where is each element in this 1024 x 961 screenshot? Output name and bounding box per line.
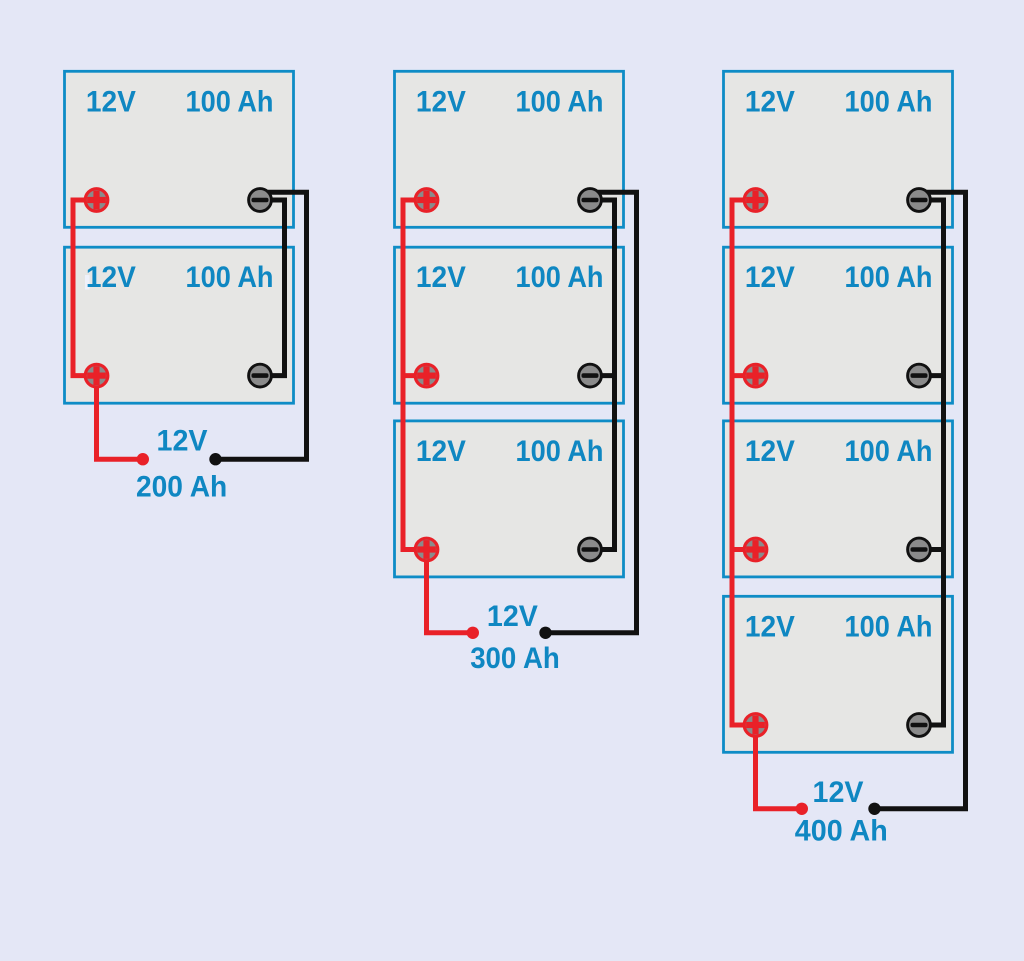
terminal + battery row1 xyxy=(744,189,767,212)
terminal - battery row1 xyxy=(908,189,931,212)
terminal - battery row1 xyxy=(249,189,272,212)
terminal - battery row1 xyxy=(579,189,602,212)
svg-text:100 Ah: 100 Ah xyxy=(845,261,933,294)
battery B8 12V 100Ah body xyxy=(724,421,953,577)
svg-text:100 Ah: 100 Ah xyxy=(186,261,274,294)
svg-text:100 Ah: 100 Ah xyxy=(516,85,604,118)
terminal + battery row2 xyxy=(744,364,767,387)
svg-text:12V: 12V xyxy=(86,261,136,294)
terminal + battery row2 xyxy=(415,364,438,387)
terminal - battery row2 xyxy=(908,364,931,387)
terminal + battery row3 xyxy=(415,538,438,561)
svg-text:100 Ah: 100 Ah xyxy=(845,85,933,118)
wire black output run to - node xyxy=(875,192,966,809)
svg-text:12V: 12V xyxy=(487,600,538,633)
svg-text:12V: 12V xyxy=(813,776,864,809)
svg-text:12V: 12V xyxy=(745,85,795,118)
battery B7 12V 100Ah body xyxy=(724,247,953,403)
svg-text:12V: 12V xyxy=(157,425,208,458)
svg-text:400 Ah: 400 Ah xyxy=(795,814,888,847)
terminal - battery row2 xyxy=(579,364,602,387)
svg-text:12V: 12V xyxy=(86,85,136,118)
svg-text:12V: 12V xyxy=(745,435,795,468)
wire red output drop to + node xyxy=(756,725,802,809)
battery B1 12V 100Ah body xyxy=(65,71,294,227)
wire red output drop to + node xyxy=(427,550,473,633)
node + output xyxy=(137,453,149,465)
svg-text:12V: 12V xyxy=(416,435,466,468)
wire red output drop to + node xyxy=(97,376,143,460)
terminal + battery row1 xyxy=(415,189,438,212)
svg-text:100 Ah: 100 Ah xyxy=(845,610,933,643)
wire red stub row3 xyxy=(732,547,756,552)
wire black stub row3 xyxy=(919,547,944,552)
svg-text:12V: 12V xyxy=(745,261,795,294)
svg-text:300 Ah: 300 Ah xyxy=(470,642,560,675)
wire red positive bus xyxy=(73,200,97,376)
terminal - battery row4 xyxy=(908,714,931,737)
svg-text:12V: 12V xyxy=(416,261,466,294)
wire red stub row2 xyxy=(403,373,427,378)
node + output xyxy=(467,627,479,639)
wire red positive bus xyxy=(732,200,756,725)
terminal + battery row2 xyxy=(85,364,108,387)
svg-text:100 Ah: 100 Ah xyxy=(186,85,274,118)
battery B9 12V 100Ah body xyxy=(724,596,953,752)
battery B2 12V 100Ah body xyxy=(65,247,294,403)
wire black negative bus xyxy=(260,200,285,376)
svg-text:100 Ah: 100 Ah xyxy=(845,435,933,468)
node - output xyxy=(868,803,880,815)
terminal - battery row3 xyxy=(579,538,602,561)
terminal - battery row2 xyxy=(249,364,272,387)
wire red stub row2 xyxy=(732,373,756,378)
node - output xyxy=(539,627,551,639)
terminal + battery row4 xyxy=(744,714,767,737)
wire black negative bus xyxy=(590,200,615,550)
svg-text:12V: 12V xyxy=(416,85,466,118)
terminal - battery row3 xyxy=(908,538,931,561)
artifact highlight xyxy=(85,275,90,290)
node + output xyxy=(796,803,808,815)
terminal + battery row1 xyxy=(85,189,108,212)
svg-text:12V: 12V xyxy=(745,610,795,643)
node - output xyxy=(209,453,221,465)
wire black negative bus xyxy=(919,200,944,725)
wire black stub row2 xyxy=(590,373,615,378)
svg-text:200 Ah: 200 Ah xyxy=(136,470,227,503)
wire red positive bus xyxy=(403,200,427,550)
svg-text:100 Ah: 100 Ah xyxy=(516,435,604,468)
battery B4 12V 100Ah body xyxy=(395,247,624,403)
svg-text:100 Ah: 100 Ah xyxy=(516,261,604,294)
wire black stub row2 xyxy=(919,373,944,378)
wire black output run to - node xyxy=(546,192,637,633)
battery B5 12V 100Ah body xyxy=(395,421,624,577)
terminal + battery row3 xyxy=(744,538,767,561)
wire black output run to - node xyxy=(216,192,307,459)
battery B3 12V 100Ah body xyxy=(395,71,624,227)
battery B6 12V 100Ah body xyxy=(724,71,953,227)
